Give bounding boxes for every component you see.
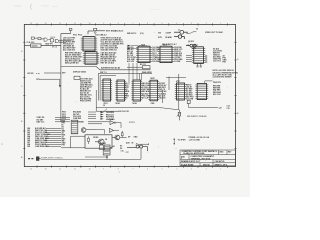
interconnect labels	[152, 47, 160, 63]
wires from ROM to U11	[186, 56, 192, 62]
net labels PD rows	[62, 111, 82, 121]
svg-text:= ==: = ==	[36, 73, 40, 75]
transistor Q3	[112, 135, 120, 140]
connector CN1 keyboard labels	[62, 121, 67, 147]
signal labels U11 right	[213, 47, 223, 62]
svg-text:C15: C15	[227, 108, 230, 110]
svg-text:TERMINAL SECTION: TERMINAL SECTION	[191, 157, 211, 160]
wire	[59, 41, 66, 43]
net labels keyboard upper	[37, 117, 46, 123]
svg-text:IRQ DO: IRQ DO	[152, 55, 159, 57]
svg-text:2: 2	[206, 23, 207, 25]
ic U6 shift register	[115, 80, 126, 101]
wires keyboard rows	[46, 129, 62, 147]
signal labels ROM left	[127, 46, 137, 63]
svg-text:7404 TP1: 7404 TP1	[45, 43, 53, 46]
drawing border frame	[24, 24, 235, 166]
bus vertical wires	[98, 73, 100, 100]
svg-text:PH1: PH1	[62, 145, 66, 147]
scan noise specks	[35, 30, 228, 164]
wire vertical	[95, 90, 97, 111]
svg-text:(C3): (C3)	[140, 33, 144, 35]
svg-text:7404: 7404	[109, 118, 113, 121]
wire	[59, 39, 71, 41]
svg-text:POWER SUPPLY CONN A-1: POWER SUPPLY CONN A-1	[41, 156, 63, 159]
slash mark	[104, 109, 108, 113]
svg-text:DB7 GND: DB7 GND	[152, 49, 160, 51]
buffer A1 box	[74, 76, 80, 79]
svg-text:13: 13	[45, 169, 47, 171]
gate U14 buffer	[110, 128, 120, 132]
svg-text:J5: J5	[136, 144, 138, 146]
signal labels ROM right	[174, 47, 183, 63]
ic U3	[81, 37, 97, 51]
svg-text:DWG NO: DWG NO	[203, 164, 210, 166]
bus wire 2	[98, 72, 152, 74]
ic U12	[195, 83, 208, 99]
svg-text:8: 8	[118, 169, 119, 171]
svg-text:2513: 2513	[104, 103, 108, 105]
wire	[48, 39, 50, 41]
svg-text:14: 14	[30, 169, 32, 171]
wire	[71, 135, 85, 137]
ic U8 shift register	[148, 80, 159, 101]
wire	[96, 130, 105, 134]
wire	[88, 123, 102, 125]
svg-text:3: 3	[191, 169, 192, 171]
wire	[40, 78, 60, 80]
svg-text:12: 12	[59, 169, 61, 171]
svg-text:14: 14	[30, 23, 32, 25]
wire	[25, 45, 31, 47]
signal labels right of U8	[159, 83, 167, 99]
svg-text:C9: C9	[196, 29, 198, 31]
wire L to labels	[205, 81, 213, 83]
wire node to vertical bus	[61, 33, 71, 35]
svg-text:D1 C4: D1 C4	[52, 46, 57, 49]
zone ticks left and right edges	[23, 42, 236, 149]
power connector CN2 box lower	[103, 150, 110, 155]
svg-text:CLARA CA. APPROVED: CLARA CA. APPROVED	[183, 152, 205, 155]
svg-text:74166: 74166	[115, 102, 120, 105]
wire	[127, 66, 143, 68]
power net labels	[189, 136, 210, 141]
svg-text:+12V 1A GND: +12V 1A GND	[189, 139, 201, 142]
signal labels U11 right 2	[223, 54, 228, 63]
transistor Q2 video driver	[95, 139, 104, 145]
ic U9 ROM	[136, 46, 152, 62]
svg-text:12: 12	[59, 23, 61, 25]
bus line 2	[96, 110, 119, 112]
resistor R5 in video box	[88, 136, 90, 144]
svg-text:11: 11	[74, 169, 76, 171]
svg-text:13: 13	[45, 23, 47, 25]
svg-text:14.318: 14.318	[32, 45, 38, 48]
svg-text:VIDEO: VIDEO	[93, 137, 99, 139]
svg-text:DA3 VCC: DA3 VCC	[37, 120, 46, 123]
wire	[97, 30, 105, 32]
bus wire 3	[100, 75, 116, 77]
crystal Y2	[36, 157, 40, 161]
svg-text:1: 1	[220, 169, 221, 171]
svg-text:NOTE 3: NOTE 3	[129, 122, 135, 124]
wire	[138, 143, 149, 145]
signal labels U3 left	[63, 37, 76, 51]
svg-text:3: 3	[191, 23, 192, 25]
speaker connection dots	[174, 139, 187, 145]
gate U2-b with feedback	[50, 37, 59, 43]
svg-text:VCC CS: VCC CS	[152, 51, 159, 53]
wire	[88, 121, 110, 123]
svg-text:74S04: 74S04	[50, 37, 55, 39]
junction dot	[106, 156, 108, 158]
ic U4	[83, 52, 99, 64]
signal labels U3 right	[101, 37, 119, 51]
svg-text:6: 6	[147, 23, 148, 25]
wire	[189, 103, 218, 107]
scan speck	[1, 144, 3, 145]
notes text block	[213, 69, 239, 78]
net labels PD right	[106, 111, 115, 121]
wires PD rows	[88, 112, 96, 119]
svg-text:Q6 R12: Q6 R12	[188, 41, 194, 43]
net label rows bottom left of title	[121, 150, 129, 154]
power connector CN2 box upper	[100, 145, 104, 150]
svg-text:A12 CLK: A12 CLK	[213, 93, 221, 96]
svg-text:TO SHT 2: TO SHT 2	[139, 46, 147, 48]
signal labels keyboard rows	[28, 127, 51, 148]
svg-text:SEE SHT 2: SEE SHT 2	[127, 33, 136, 35]
connector J2 jack	[174, 35, 184, 39]
svg-text:SHEET 1 OF 2: SHEET 1 OF 2	[215, 164, 228, 166]
bus wire with jog	[61, 66, 151, 69]
svg-text:CLK 14M A-2: CLK 14M A-2	[95, 33, 107, 36]
wire rail upper	[85, 156, 107, 158]
svg-text:AB2 Q3 WE DO: AB2 Q3 WE DO	[65, 61, 79, 64]
connector J1 jack	[174, 30, 188, 34]
svg-text:RAS PH1: RAS PH1	[116, 42, 124, 45]
video section box	[85, 135, 112, 148]
signal labels right block	[213, 86, 221, 96]
signal labels between U7 U8	[142, 82, 151, 99]
svg-text:RDY D1 CS A12: RDY D1 CS A12	[101, 61, 115, 64]
signal labels between U6 U7	[125, 83, 130, 99]
svg-text:4: 4	[176, 169, 177, 171]
svg-text:PH-1 PH-2: PH-1 PH-2	[73, 34, 82, 36]
zone ticks bottom edge	[37, 166, 227, 168]
svg-text:A15 DA3 SYNC K3: A15 DA3 SYNC K3	[101, 48, 117, 51]
bus vertical wires 2	[140, 73, 142, 80]
ic U10 ROM	[158, 46, 174, 62]
scan smudge top margin	[14, 4, 160, 10]
wire rising	[186, 32, 196, 34]
svg-text:4: 4	[176, 23, 177, 25]
svg-text:RAM ADDR: RAM ADDR	[142, 71, 152, 74]
wire	[86, 129, 96, 131]
wire	[106, 155, 108, 159]
gate U1-a	[31, 37, 34, 39]
connector P1 small box	[187, 100, 190, 103]
svg-text:DSP 7-0: DSP 7-0	[100, 72, 107, 74]
svg-text:VID CLK 7M: VID CLK 7M	[119, 111, 130, 113]
svg-text:10: 10	[89, 169, 91, 171]
svg-text:5: 5	[162, 23, 163, 25]
svg-text:C16: C16	[121, 150, 124, 152]
ic U7 shift register	[131, 80, 142, 101]
resistor R1 pullup	[69, 28, 72, 33]
signal labels U4 right	[101, 51, 117, 64]
svg-text:B2 VID: B2 VID	[28, 73, 35, 75]
svg-text:J1: J1	[178, 29, 180, 31]
gate U2-a	[44, 38, 47, 41]
ic U11 output register	[192, 47, 205, 64]
svg-text:PINOUTS: PINOUTS	[213, 82, 222, 84]
svg-text:D1 RW: D1 RW	[174, 61, 180, 63]
wire	[41, 45, 61, 47]
gate U13 inverter	[110, 121, 121, 128]
svg-text:2: 2	[206, 169, 207, 171]
resistor R6	[121, 131, 123, 138]
off-sheet arrow down	[59, 79, 61, 87]
svg-text:J4 PWR: J4 PWR	[100, 142, 107, 145]
off sheet arrows	[128, 45, 139, 50]
svg-text:SEE SHEET 2 ZONE B4: SEE SHEET 2 ZONE B4	[187, 115, 206, 118]
revision and title block	[180, 150, 236, 166]
svg-text:CHK APVD: CHK APVD	[215, 160, 225, 163]
ic U5 character generator	[101, 79, 112, 101]
capacitor C1 C2 below U11	[196, 63, 202, 67]
potentiometer R7	[177, 110, 181, 121]
svg-text:5: 5	[162, 169, 163, 171]
connector J5 jack pair	[127, 145, 148, 151]
net label dashes	[28, 158, 33, 159]
wire vertical	[162, 90, 164, 103]
svg-text:VIDEO OUT 75 OHM: VIDEO OUT 75 OHM	[205, 32, 223, 34]
svg-text:COMP: COMP	[166, 33, 172, 35]
wire	[88, 30, 94, 32]
wire	[120, 136, 127, 138]
svg-text:ADDRESS BUS A0-A9: ADDRESS BUS A0-A9	[101, 66, 120, 69]
svg-text:9: 9	[103, 23, 104, 25]
wire	[110, 146, 112, 148]
wire ROM to U12 row	[166, 76, 186, 78]
resistor R2 pullup	[94, 28, 97, 33]
oscillator Y1 box	[31, 44, 42, 47]
wire vertical 2	[168, 77, 170, 91]
svg-text:CLK VCC: CLK VCC	[213, 61, 222, 63]
svg-text:1: 1	[220, 23, 221, 25]
svg-text:7: 7	[133, 23, 134, 25]
svg-text:74257: 74257	[150, 77, 155, 80]
zone letters	[21, 51, 239, 159]
connector CN1 box	[71, 120, 78, 134]
wires keyboard upper	[55, 118, 70, 122]
jack J3 pair	[186, 44, 196, 47]
title block text	[181, 150, 232, 166]
svg-text:D1: D1	[125, 97, 127, 99]
svg-text:8T97 ENABLE B-10: 8T97 ENABLE B-10	[106, 30, 123, 33]
svg-text:PH1: PH1	[223, 62, 227, 64]
svg-text:C5: C5	[103, 105, 105, 107]
signal labels U12 left	[186, 85, 194, 101]
svg-text:TO SPKR: TO SPKR	[178, 140, 187, 142]
svg-text:DRAWN R.WOZ 10-77: DRAWN R.WOZ 10-77	[181, 160, 200, 163]
svg-text:7495: 7495	[151, 102, 155, 105]
bus vertical wires 3	[129, 63, 137, 85]
buffer box A2	[143, 66, 151, 69]
wire	[44, 72, 61, 74]
transistor Q1	[81, 128, 86, 133]
svg-text:14.31818 MHZ SERIES: 14.31818 MHZ SERIES	[213, 76, 233, 79]
svg-text:A15 LD5: A15 LD5	[127, 60, 134, 63]
svg-text:A7 CLK: A7 CLK	[142, 96, 149, 99]
wire	[41, 38, 44, 40]
svg-text:PH2 CS PH1: PH2 CS PH1	[80, 101, 91, 103]
zone numerals top and bottom	[30, 23, 221, 171]
arrow pairs	[206, 55, 208, 63]
signal labels U3 far right	[116, 37, 124, 45]
svg-text:A12 CAS A12: A12 CAS A12	[63, 48, 75, 51]
signal labels U5 left	[80, 78, 93, 103]
wire vertical to R7	[178, 74, 180, 110]
ic U8b bus driver	[175, 83, 186, 100]
wire	[70, 136, 72, 148]
svg-text:CLR STROBE: CLR STROBE	[72, 121, 84, 123]
off page arrows PD	[101, 111, 104, 119]
svg-text:7: 7	[133, 169, 134, 171]
wire riser	[140, 148, 142, 159]
bus line y110	[96, 108, 178, 110]
svg-text:C17: C17	[126, 152, 129, 154]
svg-text:9: 9	[103, 169, 104, 171]
power connector CN2 box B	[104, 145, 110, 150]
wire	[61, 147, 85, 149]
zone ticks top edge	[37, 23, 227, 25]
svg-text:BLANK: BLANK	[166, 36, 173, 39]
svg-text:10: 10	[89, 23, 91, 25]
svg-text:8: 8	[118, 23, 119, 25]
svg-text:DI D1: DI D1	[152, 53, 156, 55]
wire	[34, 37, 38, 39]
svg-text:SEE SHEET 2 B-7: SEE SHEET 2 B-7	[162, 44, 177, 46]
signal labels U4 left	[65, 51, 83, 64]
svg-text:11: 11	[74, 23, 76, 25]
svg-text:8T97: 8T97	[176, 81, 180, 83]
wire power rail	[41, 159, 105, 161]
gate U1-b	[38, 38, 41, 40]
svg-text:CAS RW: CAS RW	[73, 117, 81, 120]
svg-text:SCALE NONE: SCALE NONE	[181, 163, 194, 166]
svg-text:DP0: DP0	[62, 73, 66, 75]
svg-text:6: 6	[147, 169, 148, 171]
wire vertical bus left	[60, 34, 62, 122]
svg-text:74166: 74166	[132, 102, 137, 105]
wire power rail 2	[104, 158, 141, 160]
svg-text:DISPLAY DATA: DISPLAY DATA	[73, 71, 87, 74]
